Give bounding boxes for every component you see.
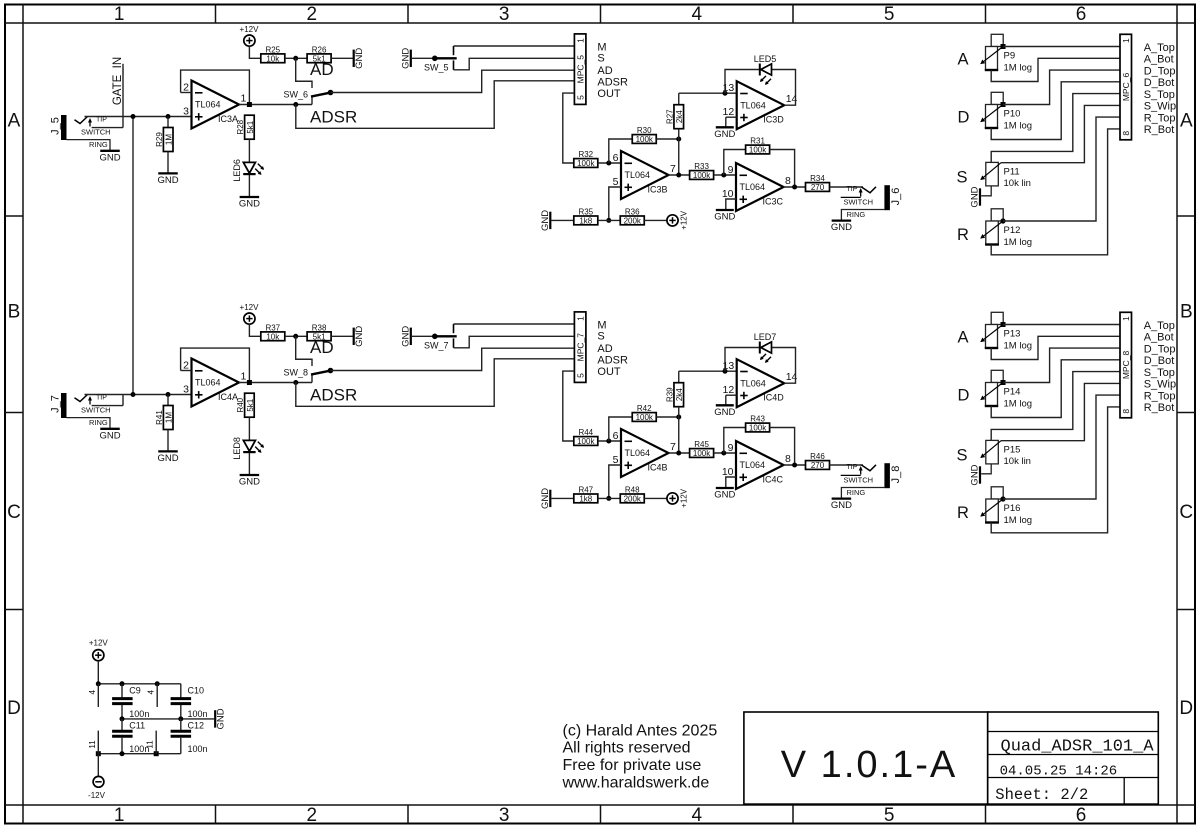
svg-text:13: 13	[723, 82, 735, 94]
svg-text:A: A	[1180, 110, 1193, 131]
svg-text:7: 7	[670, 163, 676, 175]
svg-text:D_Bot: D_Bot	[1144, 77, 1175, 89]
svg-text:R35: R35	[578, 207, 593, 216]
svg-text:GND: GND	[970, 186, 981, 207]
svg-text:R: R	[957, 504, 969, 522]
svg-text:GND: GND	[400, 326, 411, 347]
svg-text:C12: C12	[188, 721, 205, 731]
svg-text:R43: R43	[750, 415, 765, 424]
svg-text:10k lin: 10k lin	[1004, 178, 1031, 189]
svg-text:R_Top: R_Top	[1144, 112, 1176, 124]
svg-text:LED6: LED6	[232, 159, 242, 182]
svg-text:P13: P13	[1004, 329, 1021, 340]
svg-text:S_Top: S_Top	[1144, 89, 1175, 101]
svg-text:100n: 100n	[129, 709, 149, 719]
svg-text:A_Top: A_Top	[1144, 42, 1175, 54]
svg-text:A: A	[958, 329, 969, 347]
svg-text:100k: 100k	[749, 424, 767, 433]
svg-text:8: 8	[785, 175, 791, 187]
svg-text:3: 3	[499, 4, 510, 25]
svg-text:TL064: TL064	[740, 378, 766, 388]
svg-text:S: S	[597, 52, 604, 64]
svg-text:4: 4	[692, 805, 703, 826]
svg-text:1M: 1M	[165, 134, 174, 145]
svg-text:Free for private use: Free for private use	[563, 757, 702, 774]
svg-text:J_6: J_6	[890, 188, 902, 206]
svg-text:5k1: 5k1	[246, 120, 255, 133]
svg-text:R28: R28	[236, 119, 245, 134]
svg-text:AD: AD	[597, 343, 612, 355]
svg-text:100n: 100n	[129, 744, 149, 754]
svg-text:R47: R47	[578, 485, 593, 494]
svg-text:A: A	[958, 51, 969, 69]
svg-text:100n: 100n	[188, 744, 208, 754]
svg-text:TL064: TL064	[740, 182, 766, 192]
svg-text:B: B	[1180, 302, 1193, 323]
svg-text:R26: R26	[312, 45, 327, 54]
svg-text:R_Top: R_Top	[1144, 390, 1176, 402]
svg-text:R48: R48	[625, 485, 640, 494]
svg-text:-12V: -12V	[88, 791, 106, 800]
svg-text:2: 2	[307, 4, 318, 25]
svg-text:S_Wip: S_Wip	[1144, 101, 1176, 113]
svg-text:GND: GND	[157, 453, 178, 464]
svg-text:A_Top: A_Top	[1144, 320, 1175, 332]
svg-text:3: 3	[183, 384, 189, 396]
svg-text:1k8: 1k8	[579, 217, 592, 226]
svg-text:R33: R33	[694, 162, 709, 171]
svg-text:R40: R40	[236, 397, 245, 412]
svg-text:SW_6: SW_6	[283, 90, 308, 100]
svg-text:C9: C9	[129, 686, 141, 696]
svg-text:TIP: TIP	[96, 117, 107, 124]
svg-text:D_Top: D_Top	[1144, 343, 1176, 355]
svg-text:R29: R29	[155, 132, 164, 147]
svg-text:GATE_IN: GATE_IN	[112, 57, 124, 105]
svg-text:+12V: +12V	[240, 303, 260, 312]
svg-text:11: 11	[88, 740, 97, 749]
svg-text:MPC_8: MPC_8	[1121, 351, 1131, 380]
svg-text:IC3C: IC3C	[763, 196, 784, 206]
svg-text:MPC_6: MPC_6	[1121, 73, 1131, 102]
svg-text:AD: AD	[310, 60, 334, 79]
svg-text:270: 270	[811, 183, 825, 192]
svg-text:1M log: 1M log	[1004, 120, 1033, 131]
svg-text:SWITCH: SWITCH	[81, 406, 111, 415]
svg-text:TIP: TIP	[847, 464, 858, 471]
svg-text:LED8: LED8	[232, 437, 242, 460]
svg-text:+12V: +12V	[680, 488, 689, 508]
svg-text:GND: GND	[99, 152, 120, 163]
svg-text:10k: 10k	[266, 333, 280, 342]
svg-text:ADSR: ADSR	[597, 76, 628, 88]
svg-text:IC3B: IC3B	[648, 184, 668, 194]
svg-text:J_8: J_8	[890, 466, 902, 484]
svg-text:SW_5: SW_5	[424, 63, 449, 73]
svg-text:100k: 100k	[693, 449, 711, 458]
svg-text:8: 8	[785, 453, 791, 465]
svg-text:V 1.0.1-A: V 1.0.1-A	[781, 744, 957, 786]
svg-text:R27: R27	[666, 109, 675, 124]
svg-text:GND: GND	[970, 464, 981, 485]
svg-text:D_Bot: D_Bot	[1144, 355, 1175, 367]
svg-text:TL064: TL064	[740, 460, 766, 470]
svg-text:GND: GND	[714, 129, 735, 140]
svg-text:Quad_ADSR_101_A: Quad_ADSR_101_A	[1001, 738, 1155, 757]
svg-text:GND: GND	[157, 175, 178, 186]
svg-text:P11: P11	[1004, 166, 1020, 177]
svg-text:3: 3	[499, 805, 510, 826]
svg-text:100k: 100k	[693, 171, 711, 180]
svg-text:1: 1	[114, 805, 125, 826]
svg-text:B: B	[8, 302, 21, 323]
svg-text:100k: 100k	[577, 159, 595, 168]
svg-text:5: 5	[575, 95, 585, 100]
svg-text:GND: GND	[400, 48, 411, 69]
svg-text:6: 6	[1076, 805, 1087, 826]
svg-text:A_Bot: A_Bot	[1144, 332, 1174, 344]
svg-text:R46: R46	[810, 452, 825, 461]
svg-text:J_7: J_7	[50, 395, 62, 413]
svg-text:5k1: 5k1	[246, 398, 255, 411]
svg-text:270: 270	[811, 461, 825, 470]
svg-text:1M log: 1M log	[1004, 62, 1033, 73]
svg-text:GND: GND	[239, 199, 260, 210]
svg-text:1: 1	[1121, 38, 1131, 43]
svg-text:8: 8	[1121, 131, 1131, 136]
svg-text:1M log: 1M log	[1004, 398, 1033, 409]
svg-text:R44: R44	[578, 428, 593, 437]
svg-text:IC3D: IC3D	[763, 115, 784, 125]
svg-text:GND: GND	[714, 490, 735, 501]
svg-text:200k: 200k	[624, 217, 642, 226]
svg-text:6: 6	[613, 152, 619, 164]
svg-text:GND: GND	[239, 477, 260, 488]
svg-text:MPC_5: MPC_5	[575, 55, 585, 84]
svg-text:IC4A: IC4A	[218, 392, 238, 402]
svg-text:6: 6	[1076, 4, 1087, 25]
svg-text:4: 4	[88, 690, 97, 695]
svg-text:TL064: TL064	[625, 448, 651, 458]
svg-text:10: 10	[722, 466, 734, 478]
svg-text:100k: 100k	[577, 437, 595, 446]
svg-text:10k lin: 10k lin	[1004, 456, 1031, 467]
svg-text:100n: 100n	[188, 709, 208, 719]
svg-text:GND: GND	[99, 430, 120, 441]
svg-text:2: 2	[183, 82, 189, 94]
svg-text:GND: GND	[831, 500, 852, 511]
svg-text:LED5: LED5	[754, 54, 777, 64]
svg-text:4: 4	[147, 690, 156, 695]
svg-text:1: 1	[1121, 316, 1131, 321]
svg-text:GND: GND	[540, 488, 551, 509]
svg-text:D: D	[1179, 698, 1193, 719]
svg-text:TL064: TL064	[625, 170, 651, 180]
svg-text:RING: RING	[89, 418, 108, 427]
svg-text:OUT: OUT	[597, 366, 621, 378]
svg-text:1k8: 1k8	[579, 495, 592, 504]
svg-text:SW_8: SW_8	[283, 368, 308, 378]
svg-text:1M: 1M	[165, 412, 174, 423]
svg-text:+12V: +12V	[89, 639, 109, 648]
svg-text:R39: R39	[666, 387, 675, 402]
svg-text:GND: GND	[540, 210, 551, 231]
svg-text:ADSR: ADSR	[310, 108, 357, 127]
svg-text:S_Top: S_Top	[1144, 367, 1175, 379]
svg-text:TL064: TL064	[195, 378, 221, 388]
svg-text:P15: P15	[1004, 444, 1021, 455]
svg-text:R: R	[957, 226, 969, 244]
svg-text:S: S	[957, 446, 968, 464]
svg-text:5: 5	[575, 373, 585, 378]
svg-text:+12V: +12V	[680, 210, 689, 230]
svg-text:12: 12	[723, 384, 735, 396]
svg-text:D: D	[958, 387, 970, 405]
svg-text:R36: R36	[625, 207, 640, 216]
svg-text:R_Bot: R_Bot	[1144, 124, 1175, 136]
svg-text:www.haraldswerk.de: www.haraldswerk.de	[562, 774, 710, 791]
svg-text:1M log: 1M log	[1004, 340, 1033, 351]
svg-text:OUT: OUT	[597, 88, 621, 100]
svg-text:R34: R34	[810, 174, 825, 183]
svg-text:10k: 10k	[266, 55, 280, 64]
svg-text:R30: R30	[637, 126, 652, 135]
svg-text:GND: GND	[714, 407, 735, 418]
svg-text:P10: P10	[1004, 109, 1021, 120]
svg-text:100k: 100k	[636, 135, 654, 144]
svg-text:1: 1	[575, 38, 585, 43]
svg-text:D: D	[7, 698, 21, 719]
svg-text:100k: 100k	[636, 413, 654, 422]
svg-text:C10: C10	[188, 686, 205, 696]
svg-text:100k: 100k	[749, 146, 767, 155]
svg-text:D: D	[958, 109, 970, 127]
svg-text:SW_7: SW_7	[424, 341, 449, 351]
svg-text:04.05.25 14:26: 04.05.25 14:26	[1000, 764, 1118, 780]
svg-text:10: 10	[722, 188, 734, 200]
svg-text:TIP: TIP	[96, 395, 107, 402]
svg-text:A_Bot: A_Bot	[1144, 54, 1174, 66]
svg-text:3: 3	[183, 106, 189, 118]
svg-text:Sheet: 2/2: Sheet: 2/2	[995, 786, 1088, 804]
svg-text:1: 1	[241, 371, 247, 383]
svg-text:R41: R41	[155, 410, 164, 425]
svg-text:ADSR: ADSR	[310, 386, 357, 405]
svg-text:2: 2	[183, 360, 189, 372]
svg-text:R45: R45	[694, 440, 709, 449]
svg-text:C: C	[7, 502, 21, 523]
svg-text:TL064: TL064	[195, 100, 221, 110]
svg-text:1: 1	[114, 4, 125, 25]
svg-text:RING: RING	[847, 488, 866, 497]
svg-text:GND: GND	[354, 326, 365, 347]
svg-text:TIP: TIP	[847, 186, 858, 193]
svg-text:RING: RING	[89, 140, 108, 149]
svg-text:IC4C: IC4C	[763, 474, 784, 484]
svg-text:R38: R38	[312, 323, 327, 332]
svg-text:13: 13	[723, 360, 735, 372]
svg-text:12: 12	[723, 106, 735, 118]
svg-text:IC4D: IC4D	[763, 393, 784, 403]
svg-text:GND: GND	[714, 212, 735, 223]
svg-text:R37: R37	[265, 323, 280, 332]
svg-text:GND: GND	[831, 222, 852, 233]
svg-text:7: 7	[670, 441, 676, 453]
svg-text:2k4: 2k4	[675, 110, 684, 123]
svg-text:S_Wip: S_Wip	[1144, 379, 1176, 391]
svg-text:5: 5	[884, 805, 895, 826]
svg-text:LED7: LED7	[754, 332, 777, 342]
svg-text:AD: AD	[597, 65, 612, 77]
svg-text:MPC_7: MPC_7	[575, 333, 585, 362]
svg-text:R32: R32	[578, 150, 593, 159]
svg-text:GND: GND	[354, 48, 365, 69]
svg-text:1: 1	[575, 316, 585, 321]
svg-text:1M log: 1M log	[1004, 515, 1033, 526]
svg-text:P14: P14	[1004, 387, 1021, 398]
svg-text:9: 9	[728, 442, 734, 454]
svg-text:8: 8	[1121, 409, 1131, 414]
svg-text:All rights reserved: All rights reserved	[563, 740, 691, 757]
svg-text:SWITCH: SWITCH	[844, 197, 874, 206]
svg-text:R42: R42	[637, 404, 652, 413]
svg-text:2k4: 2k4	[675, 388, 684, 401]
svg-text:J_5: J_5	[50, 117, 62, 135]
svg-text:6: 6	[613, 430, 619, 442]
svg-text:IC3A: IC3A	[218, 114, 238, 124]
svg-text:C11: C11	[129, 721, 145, 731]
svg-text:P12: P12	[1004, 225, 1021, 236]
svg-text:RING: RING	[847, 210, 866, 219]
svg-text:ADSR: ADSR	[597, 354, 628, 366]
svg-text:SWITCH: SWITCH	[81, 128, 111, 137]
svg-text:TL064: TL064	[740, 100, 766, 110]
svg-text:GND: GND	[216, 708, 227, 729]
svg-text:+12V: +12V	[240, 25, 260, 34]
svg-text:2: 2	[307, 805, 318, 826]
svg-text:5: 5	[613, 176, 619, 188]
svg-text:(c) Harald Antes 2025: (c) Harald Antes 2025	[563, 722, 718, 739]
svg-text:1M log: 1M log	[1004, 237, 1033, 248]
svg-text:R25: R25	[265, 45, 280, 54]
svg-text:5: 5	[884, 4, 895, 25]
svg-text:R31: R31	[750, 137, 765, 146]
svg-text:200k: 200k	[624, 495, 642, 504]
svg-text:P16: P16	[1004, 503, 1021, 514]
svg-text:D_Top: D_Top	[1144, 65, 1176, 77]
svg-text:9: 9	[728, 164, 734, 176]
svg-text:IC4B: IC4B	[648, 462, 668, 472]
svg-text:1: 1	[241, 93, 247, 105]
svg-text:S: S	[957, 168, 968, 186]
svg-text:SWITCH: SWITCH	[844, 475, 874, 484]
svg-text:R_Bot: R_Bot	[1144, 402, 1175, 414]
svg-text:4: 4	[692, 4, 703, 25]
svg-text:C: C	[1179, 502, 1193, 523]
svg-text:P9: P9	[1004, 51, 1016, 62]
svg-text:S: S	[597, 330, 604, 342]
svg-text:A: A	[8, 110, 21, 131]
svg-text:AD: AD	[310, 338, 334, 357]
svg-text:5: 5	[613, 454, 619, 466]
